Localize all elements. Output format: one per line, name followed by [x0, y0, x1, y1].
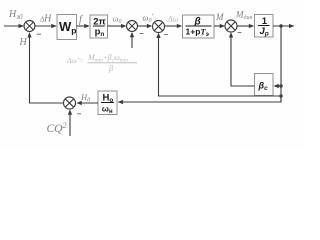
wire S3 to beta block — [165, 25, 180, 27]
svg-text:β: β — [108, 64, 113, 73]
minus sign at S1 — [37, 33, 42, 35]
block Ho/wn — [98, 91, 117, 115]
wire beta block to summer 4 — [214, 25, 223, 27]
node junction for speed feedback — [279, 94, 282, 97]
minus sign at S3 — [164, 34, 168, 36]
wire speed feedback to S3 minus input — [159, 35, 282, 96]
summing junction S3 — [153, 21, 165, 33]
block beta-c — [255, 74, 274, 96]
svg-text:Δω̃ =: Δω̃ = — [66, 56, 84, 65]
wire input to summer 1 — [4, 25, 21, 27]
summing junction S2 — [127, 21, 138, 32]
minus sign at S5 — [77, 113, 81, 115]
wire S5 output feedback to S1 minus input — [30, 35, 64, 103]
summing junction S5 — [64, 97, 76, 109]
wire CQ2 input to S5 — [69, 112, 71, 136]
minus sign at S2 — [140, 33, 144, 35]
summing junction S1 — [24, 21, 35, 32]
node junction into beta-c — [279, 84, 282, 87]
svg-text:ΔH: ΔH — [39, 14, 52, 25]
svg-text:Δω: Δω — [167, 14, 179, 24]
node output tap junction — [279, 24, 282, 27]
block 2pi/pn — [90, 15, 108, 38]
wire Ho/wn output to summer 5 — [79, 102, 98, 104]
minus sign at S4 — [238, 32, 242, 34]
wire Wp to 2pi/pn — [77, 25, 88, 27]
summing junction S4 — [225, 20, 237, 32]
block beta/(1+pTe) — [183, 15, 215, 38]
wire 2pi/pn to summer 2 — [108, 25, 124, 27]
wire stub dw correction into S2 — [131, 35, 133, 49]
wire omega tap vertical — [280, 26, 282, 102]
wire S2 to summer 3 — [138, 25, 150, 27]
wire S4 to Jp block — [237, 25, 252, 27]
wire into beta-c block — [276, 85, 281, 87]
wire output omega — [273, 25, 292, 27]
svg-text:H: H — [19, 37, 28, 48]
svg-text:M: M — [215, 12, 224, 22]
wire omega to Ho/wn block — [121, 96, 282, 102]
block Wp regulator — [57, 15, 77, 40]
wire S1 to Wp — [35, 25, 54, 27]
wire beta-c output to S4 minus input — [231, 35, 255, 87]
block 1/Jp — [255, 15, 274, 38]
formula dw = (Mmin + bc wmin)/beta — [66, 53, 137, 73]
